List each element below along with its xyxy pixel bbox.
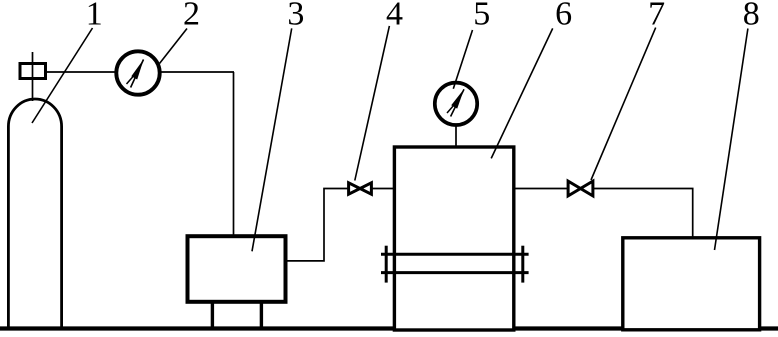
gauge 2 needle xyxy=(127,59,144,88)
flange line lower xyxy=(381,271,529,274)
gauge 5 needle xyxy=(447,89,464,117)
valve 4 (bowtie) xyxy=(349,183,372,194)
wire: valve square to gauge 2 to corner xyxy=(46,71,234,73)
box 3 left leg xyxy=(211,302,214,329)
leader line 6 xyxy=(491,28,553,158)
leader line 7 xyxy=(591,28,656,180)
cylinder valve square xyxy=(20,64,46,79)
flange line upper xyxy=(381,253,529,256)
svg-text:8: 8 xyxy=(743,0,760,32)
flange bolt tick right xyxy=(521,246,524,283)
box 3 (regulator unit) xyxy=(188,236,286,302)
leader line 3 xyxy=(252,28,292,251)
svg-text:4: 4 xyxy=(386,0,403,32)
box 8 (receiver tank) xyxy=(623,238,760,330)
wire: vertical down to box 3 xyxy=(233,72,235,237)
svg-text:1: 1 xyxy=(86,0,103,32)
ground line xyxy=(0,326,778,330)
pressure gauge 2 xyxy=(116,51,159,94)
leader line 5 xyxy=(453,30,472,89)
svg-text:3: 3 xyxy=(287,0,304,32)
box 6 (test vessel) xyxy=(394,147,513,330)
cylinder valve stem xyxy=(32,52,34,101)
valve 7 (bowtie) xyxy=(568,181,593,196)
wire: box 3 outlet up to valve 4 level xyxy=(286,189,395,261)
wire: box 6 to valve 7 to box 8 xyxy=(514,189,693,240)
svg-text:5: 5 xyxy=(473,0,490,32)
box 3 right leg xyxy=(260,302,263,329)
cylinder 1 (gas bottle) xyxy=(8,99,61,329)
leader line 2 xyxy=(160,29,188,64)
pressure gauge 5 xyxy=(435,83,477,125)
svg-text:2: 2 xyxy=(183,0,200,32)
flange bolt tick left xyxy=(385,246,388,283)
leader line 1 xyxy=(32,28,93,123)
leader line 8 xyxy=(715,29,748,251)
svg-text:7: 7 xyxy=(648,0,665,32)
gauge 5 stem xyxy=(455,124,457,148)
svg-text:6: 6 xyxy=(555,0,572,32)
leader line 4 xyxy=(355,26,390,181)
